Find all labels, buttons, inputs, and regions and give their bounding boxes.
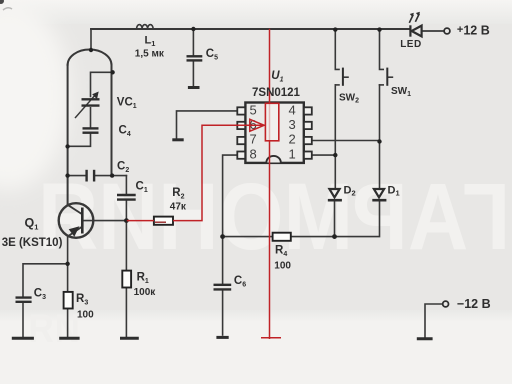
svg-text:LED: LED (400, 39, 422, 50)
svg-text:7: 7 (250, 132, 257, 147)
svg-text:5: 5 (250, 103, 257, 118)
svg-text:47к: 47к (170, 202, 187, 213)
svg-text:100к: 100к (134, 287, 157, 298)
svg-text:3: 3 (289, 117, 296, 132)
svg-text:2: 2 (289, 132, 296, 147)
svg-text:100: 100 (274, 261, 291, 272)
svg-text:ИЯ: ИЯ (28, 306, 80, 351)
svg-text:1: 1 (289, 146, 296, 161)
svg-text:7SN0121: 7SN0121 (252, 87, 301, 99)
svg-text:8: 8 (250, 146, 257, 161)
svg-text:−12 В: −12 В (457, 297, 491, 311)
svg-text:1,5 мк: 1,5 мк (135, 49, 165, 60)
svg-text:3Е (KST10): 3Е (KST10) (2, 237, 63, 249)
svg-text:+12 В: +12 В (457, 23, 490, 37)
svg-text:4: 4 (289, 103, 296, 118)
svg-text:100: 100 (77, 310, 94, 321)
